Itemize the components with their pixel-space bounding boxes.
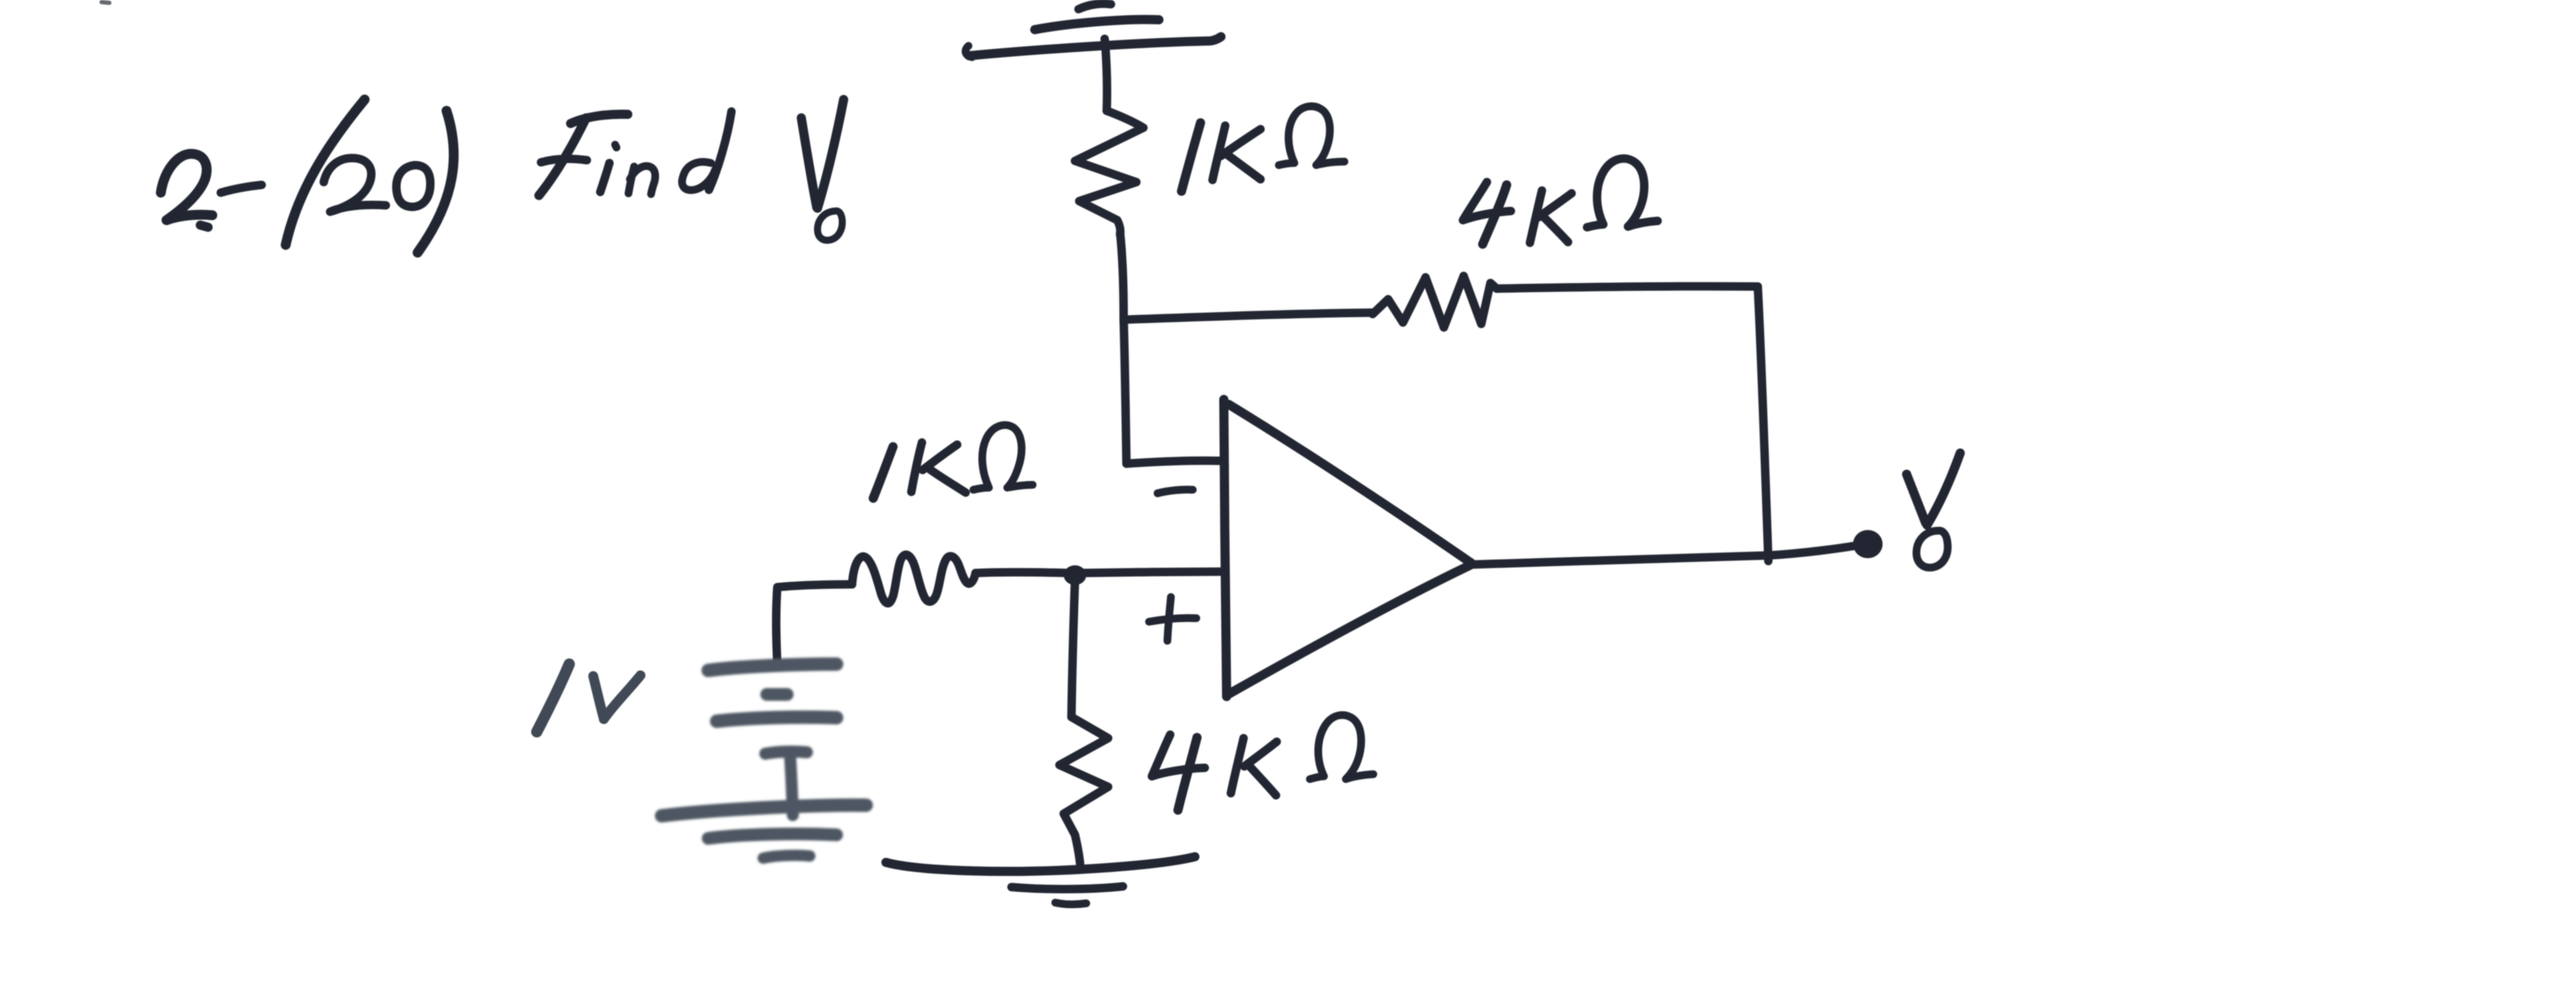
node Vo dot	[1853, 530, 1883, 558]
open parenthesis	[286, 100, 365, 245]
wire: junction down to resistor R4	[1071, 580, 1075, 717]
title text "2.-(20) Find Vo"	[161, 100, 844, 253]
digit 2 of title	[161, 154, 212, 220]
label Vo at output	[1907, 453, 1960, 567]
letter F of Find	[571, 114, 628, 123]
power rail symbol at top (inverted ground)	[966, 4, 1221, 57]
letter i of Find	[600, 163, 609, 192]
letter V of title Vo	[801, 118, 817, 207]
wire: feedback corner down to output wire	[1758, 287, 1768, 561]
subscript o of title Vo	[818, 211, 842, 241]
node: plus input junction dot	[1064, 565, 1086, 585]
paper speck top left	[102, 2, 109, 3]
wire: R2 to feedback corner	[1497, 287, 1758, 289]
wire: branch node down to inverting input jog	[1124, 320, 1126, 464]
battery V1 1V plates (pencil)	[662, 664, 866, 858]
resistor R3 1kOhm input loops	[852, 555, 976, 603]
label 1V for battery	[537, 664, 640, 732]
wire: R3 to plus junction node	[976, 572, 1070, 573]
wire: rail to R1 top	[1105, 45, 1107, 111]
resistor R2 4kOhm feedback zigzag	[1373, 276, 1497, 327]
resistor R4 4kOhm vertical zigzag	[1059, 717, 1108, 869]
op-amp minus sign	[1158, 490, 1193, 493]
dash	[221, 185, 262, 193]
letter d of Find	[682, 162, 715, 190]
wire: R1 bottom to inverting branch node	[1120, 233, 1124, 320]
ground symbol bottom (dark)	[886, 857, 1195, 904]
digit 2 of 20	[324, 158, 386, 212]
op-amp plus sign	[1149, 597, 1196, 641]
op-amp U1 triangle	[1224, 399, 1471, 697]
period after 2	[200, 225, 208, 227]
label 1kOhm for R3	[873, 425, 1033, 498]
close parenthesis	[418, 111, 454, 253]
wire: jog into op-amp inverting input	[1126, 461, 1222, 464]
wire: battery top to input resistor R3	[777, 584, 853, 663]
ground below battery (pencil)	[662, 805, 866, 816]
label 1kOhm for R1	[1181, 107, 1344, 191]
wire: junction to op-amp plus input	[1079, 572, 1223, 573]
label 4kOhm for R2	[1463, 159, 1658, 244]
wire: op-amp output to node Vo	[1471, 546, 1857, 565]
resistor R1 1kOhm vertical zigzag	[1075, 111, 1143, 235]
digit 0 of 20	[396, 165, 430, 207]
letter n of Find	[628, 167, 634, 193]
label 4kOhm for R4	[1152, 715, 1373, 810]
wire: branch node to feedback resistor R2	[1124, 313, 1374, 320]
